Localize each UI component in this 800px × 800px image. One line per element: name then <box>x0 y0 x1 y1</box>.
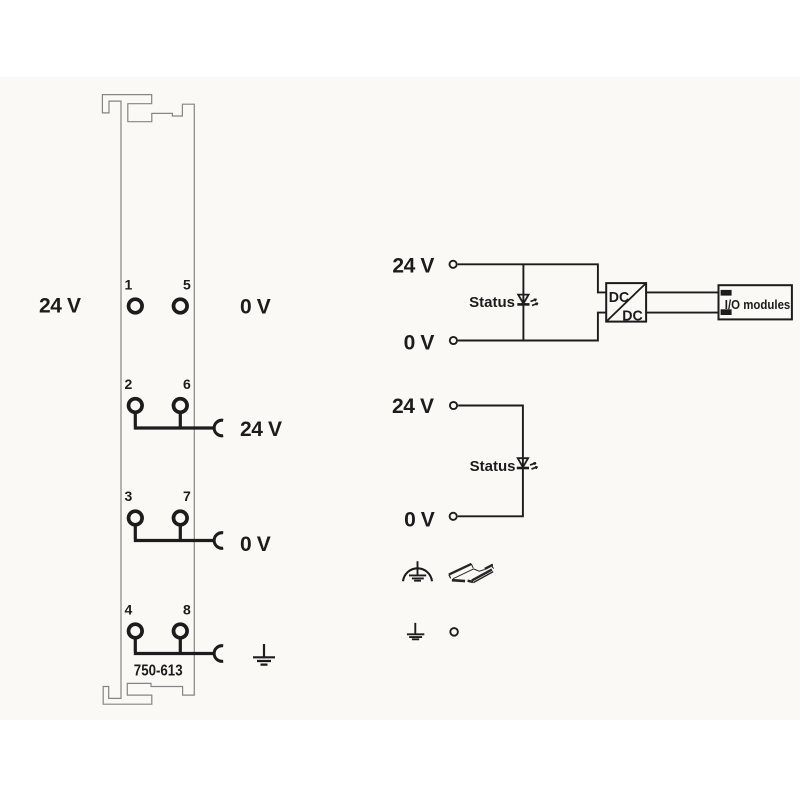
LED D1 <box>517 295 538 306</box>
clamp contact row 3 <box>214 533 223 549</box>
svg-text:3: 3 <box>125 488 133 504</box>
terminal circle 24V s1 <box>450 261 457 268</box>
svg-text:5: 5 <box>183 276 191 292</box>
svg-text:I/O modules: I/O modules <box>725 297 791 312</box>
module 750-613 body outline <box>102 95 194 705</box>
terminal 4 <box>129 624 143 638</box>
wire bus row 3 <box>134 526 215 540</box>
svg-text:8: 8 <box>183 601 191 617</box>
svg-text:0 V: 0 V <box>240 296 271 319</box>
svg-text:1: 1 <box>125 276 133 292</box>
terminal circle 0V s1 <box>450 337 457 344</box>
svg-text:6: 6 <box>183 376 191 392</box>
bus pin bottom <box>721 309 732 315</box>
terminal 7 <box>174 511 188 525</box>
wire 0V s2 <box>458 464 523 516</box>
terminal circle (bottom) <box>450 628 458 636</box>
svg-text:0 V: 0 V <box>240 533 271 556</box>
svg-text:DC: DC <box>622 307 643 324</box>
svg-text:24 V: 24 V <box>240 418 282 441</box>
functional earth symbol (bottom) <box>407 623 424 639</box>
terminal circle 24V s2 <box>450 402 457 409</box>
svg-text:0 V: 0 V <box>404 331 435 354</box>
terminal 5 <box>174 299 188 313</box>
wire bus row 2 <box>134 414 215 428</box>
bus pin top <box>721 290 732 296</box>
wire bus row 4 <box>134 639 215 653</box>
svg-text:Status: Status <box>470 458 516 475</box>
terminal 6 <box>174 399 188 413</box>
earth ground (row 4 right) <box>253 644 275 665</box>
terminal 2 <box>129 399 143 413</box>
svg-text:4: 4 <box>125 601 133 617</box>
svg-text:24 V: 24 V <box>39 294 81 317</box>
svg-text:750-613: 750-613 <box>134 663 183 680</box>
terminal 1 <box>129 299 143 313</box>
LED D2 <box>517 458 538 469</box>
terminal circle 0V s2 <box>450 513 457 520</box>
wire 24V top s1 <box>458 264 607 292</box>
svg-text:7: 7 <box>183 488 191 504</box>
terminal 8 <box>174 624 188 638</box>
earth on housing symbol <box>403 561 432 581</box>
terminal 3 <box>129 511 143 525</box>
wire 24V s2 <box>458 406 523 465</box>
wires DC/DC to I/O modules <box>646 292 718 312</box>
DIN carrier rail icon <box>449 564 494 583</box>
svg-text:24 V: 24 V <box>392 255 434 278</box>
svg-text:DC: DC <box>609 289 630 306</box>
svg-text:2: 2 <box>125 376 133 392</box>
I/O modules box <box>719 285 792 319</box>
DC/DC converter U1 <box>606 283 646 324</box>
svg-text:24 V: 24 V <box>392 395 434 418</box>
svg-text:Status: Status <box>469 294 515 311</box>
wire LED branch s1 <box>522 264 524 340</box>
clamp contact row 4 <box>214 646 223 662</box>
svg-text:0 V: 0 V <box>404 509 435 532</box>
wire 0V bottom s1 <box>458 313 606 341</box>
clamp contact row 2 <box>214 420 223 436</box>
